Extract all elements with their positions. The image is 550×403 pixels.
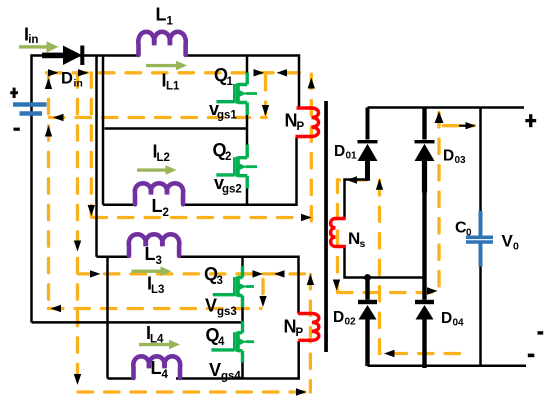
svg-text:4: 4 [218,336,225,348]
svg-text:V: V [502,232,514,251]
svg-text:P: P [297,121,305,133]
svg-text:L3: L3 [151,284,164,296]
svg-text:L: L [145,244,156,264]
svg-text:3: 3 [217,275,223,287]
svg-text:L1: L1 [166,81,180,93]
svg-text:in: in [28,34,38,46]
svg-text:1: 1 [227,76,234,88]
svg-text:L: L [152,196,163,216]
svg-text:V: V [209,360,221,380]
svg-text:01: 01 [346,151,358,162]
svg-text:gs2: gs2 [222,184,242,196]
svg-text:L: L [151,358,162,378]
svg-text:3: 3 [156,255,162,267]
svg-text:0: 0 [513,241,519,253]
svg-text:D: D [334,143,345,160]
svg-text:L: L [156,5,167,25]
svg-text:P: P [296,327,304,339]
svg-text:s: s [360,238,366,250]
svg-text:2: 2 [225,151,231,163]
svg-text:D: D [333,309,344,326]
svg-text:gs4: gs4 [221,371,241,383]
svg-text:C: C [455,220,467,237]
svg-text:gs1: gs1 [217,110,237,122]
svg-text:gs3: gs3 [217,306,237,318]
svg-text:in: in [74,78,83,90]
svg-text:0: 0 [466,228,472,239]
svg-text:2: 2 [163,207,169,219]
svg-text:1: 1 [167,16,174,28]
svg-text:D: D [441,310,452,327]
svg-text:D: D [443,148,454,165]
svg-text:04: 04 [453,318,465,329]
svg-text:D: D [61,70,73,88]
svg-text:L4: L4 [150,334,164,346]
svg-text:N: N [348,229,360,248]
svg-text:V: V [205,296,217,316]
svg-text:02: 02 [345,317,357,328]
svg-text:03: 03 [455,155,467,166]
svg-text:4: 4 [162,369,169,381]
svg-text:L2: L2 [157,152,170,164]
